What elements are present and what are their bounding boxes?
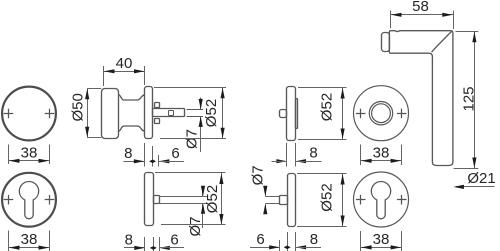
knob neck (side view) xyxy=(118,95,144,132)
lever key rosette side view xyxy=(288,174,296,227)
dimensions 8 and 6 (key rosette thickness) xyxy=(124,231,184,251)
fixing clips xyxy=(155,103,160,124)
cylinder support stub xyxy=(154,196,160,204)
svg-text:38: 38 xyxy=(373,231,390,248)
knob rosette front view circle xyxy=(2,87,56,141)
svg-text:Ø7: Ø7 xyxy=(187,216,204,236)
dimension D7 (lever escutcheon stub) xyxy=(250,165,280,214)
dimension D7 (escutcheon stub) xyxy=(159,186,207,237)
svg-text:38: 38 xyxy=(373,144,390,161)
dimension 8 (lever rosette thickness) xyxy=(272,143,322,167)
dimension 38 (lever rosette width) xyxy=(361,144,402,165)
svg-text:Ø52: Ø52 xyxy=(204,185,221,213)
screw mark left on escutcheon xyxy=(4,195,14,205)
svg-text:38: 38 xyxy=(21,144,38,161)
svg-text:Ø21: Ø21 xyxy=(467,170,495,187)
svg-text:6: 6 xyxy=(171,145,179,162)
lever rosette centre ring xyxy=(369,102,392,125)
dimension D50 (knob diameter) xyxy=(70,88,102,137)
lever escutcheon front view circle xyxy=(354,172,409,227)
screw mark left on knob rosette xyxy=(4,109,14,119)
dimension D52 (lever key rosette diameter) xyxy=(297,174,347,227)
screw mark left on lever rosette xyxy=(356,109,366,119)
lever rosette bump xyxy=(296,99,298,129)
svg-text:38: 38 xyxy=(21,231,38,248)
svg-text:Ø50: Ø50 xyxy=(70,93,87,121)
lever escutcheon stub xyxy=(280,196,288,205)
dimensions 6 and 8 (lever key rosette) xyxy=(250,231,321,251)
dimension 38 (knob rosette width) xyxy=(9,144,50,164)
lever rosette front view circle xyxy=(354,86,409,141)
knob face (side view) xyxy=(102,89,119,139)
svg-text:8: 8 xyxy=(310,231,318,248)
svg-text:Ø52: Ø52 xyxy=(203,99,220,127)
key escutcheon front view circle xyxy=(2,173,56,227)
lever spindle boss xyxy=(280,110,287,118)
svg-text:125: 125 xyxy=(461,86,478,111)
svg-text:58: 58 xyxy=(412,0,429,15)
screw mark right on escutcheon xyxy=(45,195,55,205)
dimension 40 (knob projection) xyxy=(104,55,146,86)
dimension 38 (escutcheon width) xyxy=(9,231,50,251)
dimension 58 (handle projection) xyxy=(391,0,454,29)
lever handle bend silhouette line xyxy=(432,32,452,53)
dimension 125 (handle length) xyxy=(454,31,479,168)
lever handle top view xyxy=(389,31,453,166)
svg-text:8: 8 xyxy=(125,231,133,248)
dimension 38 (lever escutcheon width) xyxy=(361,231,402,251)
label D21 (grip diameter) xyxy=(453,170,495,189)
svg-text:6: 6 xyxy=(170,231,178,248)
euro profile keyhole xyxy=(19,182,38,219)
knob rosette side view xyxy=(145,87,153,139)
dimension D52 (key rosette diameter) xyxy=(155,173,226,226)
screw mark right on knob rosette xyxy=(45,109,55,119)
lever neck stub xyxy=(382,33,390,52)
screw mark right on lever rosette xyxy=(397,109,407,119)
svg-text:Ø52: Ø52 xyxy=(319,183,336,211)
dimension D7 (knob spindle) xyxy=(183,98,203,153)
svg-text:8: 8 xyxy=(124,145,132,162)
svg-text:8: 8 xyxy=(309,145,317,162)
key rosette side view xyxy=(145,173,154,226)
dimension D52 (lever rosette diameter) xyxy=(298,88,347,140)
svg-text:6: 6 xyxy=(256,231,264,248)
svg-text:Ø7: Ø7 xyxy=(250,165,267,185)
lever rosette side view xyxy=(287,87,296,141)
screw mark right on lever escutcheon xyxy=(397,195,407,205)
svg-text:40: 40 xyxy=(116,55,133,72)
euro profile keyhole (lever side) xyxy=(371,181,390,218)
dimensions 8 and 6 (knob rosette thickness) xyxy=(124,143,185,167)
square spindle (knob) xyxy=(153,109,204,117)
svg-text:Ø52: Ø52 xyxy=(319,93,336,121)
screw mark left on lever escutcheon xyxy=(356,195,366,205)
dimension D52 (knob rosette diameter) xyxy=(154,87,226,138)
